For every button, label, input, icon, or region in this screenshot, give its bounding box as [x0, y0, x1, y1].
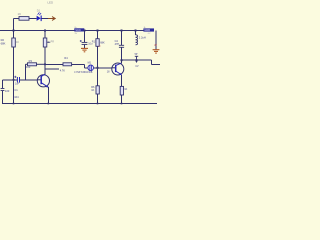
svg-text:PR: PR — [51, 41, 55, 44]
capacitor C3 electrolytic (x84.5) + ground — [80, 31, 93, 49]
junction bottom rail-Q1 emitter — [48, 103, 50, 105]
electret microphone M1 — [74, 62, 93, 75]
junction tank wire-trimmer — [136, 59, 138, 61]
wire Q1 collector to mic (y64.3) — [45, 64, 88, 68]
junction rail-x13 — [13, 30, 15, 32]
svg-text:B-: B- — [144, 27, 146, 29]
svg-text:1uF: 1uF — [15, 83, 20, 86]
background — [0, 0, 160, 110]
net label box 1 on rail — [74, 27, 84, 35]
svg-text:R2: R2 — [1, 38, 5, 42]
wire R1 left lead — [14, 18, 20, 20]
svg-text:R4: R4 — [64, 56, 68, 60]
capacitor C4 column x121.5 — [115, 31, 125, 61]
wire mic to Q2 base — [94, 67, 116, 69]
svg-text:47P: 47P — [115, 43, 120, 46]
svg-text:C1: C1 — [14, 88, 18, 92]
svg-text:104: 104 — [14, 95, 19, 99]
junction bottom rail-x13 — [13, 103, 15, 105]
svg-text:1K: 1K — [124, 88, 127, 91]
svg-text:10u: 10u — [88, 43, 93, 46]
svg-text:1K: 1K — [18, 12, 22, 16]
junction bottom rail-R6 — [97, 103, 99, 105]
svg-text:2.2uH: 2.2uH — [139, 36, 146, 40]
svg-text:1K: 1K — [91, 89, 94, 92]
svg-text:103: 103 — [5, 89, 10, 93]
wire LED to arrow — [42, 18, 49, 20]
svg-text:68K: 68K — [1, 42, 6, 46]
ground symbol 2 (top right) — [153, 31, 160, 54]
trimmer capacitor CT — [135, 54, 139, 68]
resistor R6 (lower, x97.5) — [91, 86, 99, 94]
svg-text:4.7K: 4.7K — [60, 69, 65, 72]
svg-text:CV: CV — [135, 66, 139, 68]
ground symbol 1 — [81, 48, 88, 51]
wire Q1 base line y79.5 — [3, 80, 42, 104]
trimmer pot RP column — [44, 31, 46, 75]
wire Q2 collector riser — [121, 60, 123, 63]
resistor R4 (horizontal) — [60, 56, 72, 73]
svg-text:5P: 5P — [135, 54, 138, 56]
junction tank wire-C4 — [121, 59, 123, 61]
svg-text:LYSKT-6604 WB: LYSKT-6604 WB — [74, 71, 92, 74]
wire collector stub y69 — [45, 68, 59, 70]
transistor Q2 — [111, 63, 123, 75]
resistor R5 (emitter Q2) — [120, 86, 127, 95]
resistor R2 (vertical on x13) — [1, 38, 20, 47]
resistor R2b feedback (horizontal) — [26, 59, 46, 80]
LED D1 — [37, 0, 54, 21]
antenna output arrow — [48, 17, 55, 21]
inductor L1 — [136, 31, 146, 45]
junction rail-R3 — [97, 30, 99, 32]
junction mid wire-pot column — [44, 63, 46, 65]
junction rail-L1 — [135, 30, 137, 32]
resistor R1 — [18, 12, 30, 20]
resistor R3 (upper, x97.5) — [92, 39, 105, 48]
wire top supply rail — [0, 30, 153, 32]
junction base wire-x13 — [13, 79, 15, 81]
svg-text:68K: 68K — [100, 41, 105, 44]
transistor Q1 — [37, 74, 50, 87]
junction rail-C4 — [121, 30, 123, 32]
column x97.5 — [97, 31, 99, 104]
svg-text:1K: 1K — [16, 41, 19, 44]
wire R1 to LED — [29, 18, 37, 20]
net label box 2 on rail right — [143, 27, 154, 35]
svg-text:103: 103 — [26, 65, 31, 69]
junction bottom rail-R5 — [121, 103, 123, 105]
wire left column x13 — [13, 19, 15, 104]
svg-text:D1: D1 — [37, 9, 41, 13]
svg-text:R3: R3 — [29, 59, 33, 63]
capacitor C1 (left bottom) — [1, 88, 19, 99]
junction rail-pot column — [44, 30, 46, 32]
capacitor C2 electrolytic (on base wire) — [14, 76, 19, 86]
wire bottom ground rail — [2, 103, 157, 105]
svg-text:M1: M1 — [88, 62, 92, 65]
junction rail-C3 — [84, 30, 86, 32]
wire collector tank horizontal — [122, 60, 161, 64]
junction mic wire-R3 column — [97, 67, 99, 69]
svg-text:LED: LED — [47, 0, 54, 4]
wire Q1 emitter to rail — [47, 87, 49, 103]
wire Q2 emitter riser — [121, 75, 123, 104]
